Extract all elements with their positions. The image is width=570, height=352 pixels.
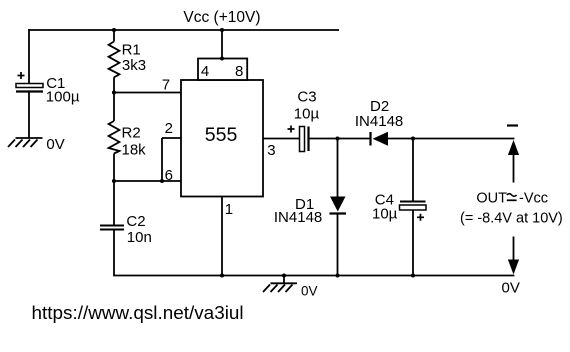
capacitor C2 xyxy=(100,226,124,230)
op-amp U1 555 IC body xyxy=(181,80,263,197)
wire bracket pin2 to pin6 xyxy=(161,138,163,181)
resistor R2 xyxy=(109,121,120,154)
svg-text:0V: 0V xyxy=(502,280,520,297)
wire C4 vertical upper xyxy=(412,139,414,202)
svg-text:3: 3 xyxy=(267,142,275,159)
wire ground stub xyxy=(283,276,285,284)
svg-text:8: 8 xyxy=(235,63,243,80)
svg-text:1: 1 xyxy=(225,201,233,218)
diode D1 xyxy=(330,197,347,214)
wire top rail down to R1 xyxy=(113,30,115,42)
ground 0V left xyxy=(8,138,43,147)
svg-text:10µ: 10µ xyxy=(372,206,398,223)
wire left vertical from top rail to C1 xyxy=(28,29,30,84)
svg-text:3k3: 3k3 xyxy=(122,57,146,74)
svg-text:Vcc (+10V): Vcc (+10V) xyxy=(183,9,260,26)
label C4 value xyxy=(372,192,398,223)
label 0V right xyxy=(502,280,520,297)
svg-text:IN4148: IN4148 xyxy=(274,209,322,226)
node junction top rail to R1 xyxy=(112,28,116,32)
wire C4 to bottom rail xyxy=(412,210,414,276)
wire pin 7 xyxy=(114,92,181,94)
node junction R1/R2/pin7 xyxy=(112,90,116,94)
capacitor C4 xyxy=(400,202,427,221)
label R2 18k xyxy=(122,124,147,158)
label (= -8.4V at 10V) xyxy=(460,211,563,227)
label Vcc (+10V) xyxy=(183,9,260,26)
label R1 3k3 xyxy=(122,42,146,74)
label 555 xyxy=(205,124,238,146)
ground 0V bottom xyxy=(263,283,297,292)
pin 6 label xyxy=(165,167,173,184)
svg-text:-Vcc: -Vcc xyxy=(519,190,548,206)
label D2 IN4148 xyxy=(355,98,403,130)
node junction D1 bottom rail xyxy=(335,273,339,277)
svg-text:OUT: OUT xyxy=(476,190,507,206)
wire D1 to bottom rail xyxy=(337,214,339,276)
svg-text:10µ: 10µ xyxy=(294,106,320,123)
svg-text:0V: 0V xyxy=(46,136,64,153)
pin 4 label xyxy=(201,63,209,80)
node junction C4 branch xyxy=(411,136,415,140)
node junction D1 branch xyxy=(335,136,339,140)
pin 7 label xyxy=(162,77,170,94)
svg-text:100µ: 100µ xyxy=(46,88,80,105)
svg-text:https://www.qsl.net/va3iul: https://www.qsl.net/va3iul xyxy=(32,303,244,324)
node junction ground stub xyxy=(282,273,286,277)
label C3 value xyxy=(294,89,320,123)
svg-text:18k: 18k xyxy=(122,141,147,158)
wire pin 6 xyxy=(114,180,181,182)
svg-text:C3: C3 xyxy=(297,89,316,106)
555 top pins box 4 8 xyxy=(198,59,247,81)
svg-text:7: 7 xyxy=(162,77,170,94)
svg-text:R2: R2 xyxy=(122,124,141,141)
wire C1 to ground xyxy=(28,92,30,139)
output arrow vertical xyxy=(508,140,519,275)
label OUT approx -Vcc xyxy=(476,190,548,206)
svg-text:IN4148: IN4148 xyxy=(355,113,403,130)
resistor R1 xyxy=(109,42,120,78)
svg-text:C2: C2 xyxy=(126,213,145,230)
capacitor C3 xyxy=(288,126,309,152)
pin 1 label xyxy=(225,201,233,218)
wire D2 to output corner xyxy=(388,138,514,140)
pin 2 label xyxy=(165,120,173,137)
wire R2 down to C2 xyxy=(113,154,115,226)
svg-text:(= -8.4V at 10V): (= -8.4V at 10V) xyxy=(460,211,563,227)
label url xyxy=(32,303,244,324)
wire pin 2 xyxy=(162,137,181,139)
node junction pin1 bottom rail xyxy=(220,273,224,277)
wire D1 vertical upper xyxy=(337,139,339,197)
svg-text:555: 555 xyxy=(205,124,238,146)
capacitor C1 xyxy=(16,72,43,92)
svg-text:4: 4 xyxy=(201,63,209,80)
wire pin 3 xyxy=(263,138,300,140)
label 0V bottom middle xyxy=(301,284,318,299)
pin 8 label xyxy=(235,63,243,80)
label C1 value xyxy=(46,75,80,106)
svg-text:2: 2 xyxy=(165,120,173,137)
output minus sign xyxy=(507,124,518,126)
wire C3 to D2 xyxy=(309,138,372,140)
node junction bracket to pin6 xyxy=(160,179,164,183)
diode D2 xyxy=(371,132,389,146)
wire bottom rail xyxy=(113,275,514,277)
node junction top rail to 555 pins 4/8 xyxy=(220,28,224,32)
label C2 10n xyxy=(126,213,151,246)
pin 3 label xyxy=(267,142,275,159)
wire Vcc to pins 4/8 xyxy=(220,30,224,61)
wire C2 to bottom rail xyxy=(113,230,115,276)
wire pin 1 to bottom rail xyxy=(221,197,223,276)
svg-text:6: 6 xyxy=(165,167,173,184)
node junction C4 bottom rail xyxy=(411,273,415,277)
label D1 IN4148 xyxy=(274,196,322,226)
svg-text:10n: 10n xyxy=(127,229,152,246)
node junction pin6 wire on left rail xyxy=(112,179,116,183)
label 0V left xyxy=(46,136,64,153)
wire R1 to R2 xyxy=(113,77,115,121)
wire top Vcc rail xyxy=(29,29,339,31)
svg-text:0V: 0V xyxy=(301,284,318,299)
